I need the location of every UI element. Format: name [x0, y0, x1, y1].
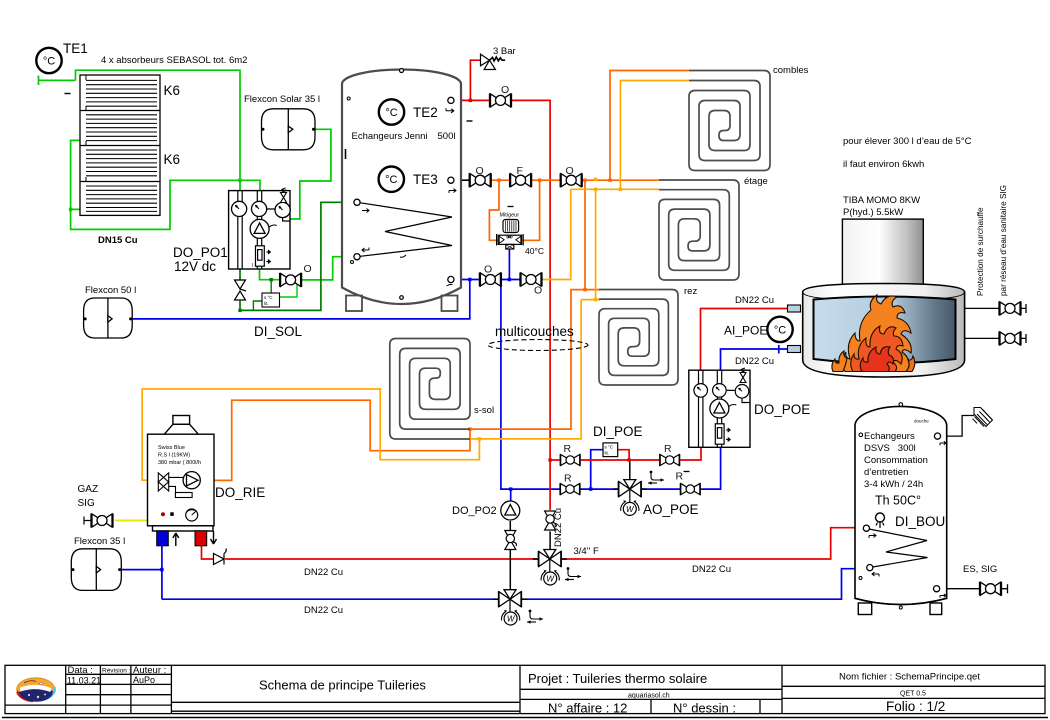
svg-text:380 mbar ( 800l/h: 380 mbar ( 800l/h [158, 460, 201, 466]
safety valve 3 Bar [481, 54, 506, 69]
svg-text:Flexcon Solar 35 l: Flexcon Solar 35 l [244, 94, 320, 105]
floor loop rez [599, 290, 678, 386]
boiler pump [183, 472, 200, 489]
svg-text:Protection de surchauffe: Protection de surchauffe [976, 207, 985, 296]
stove ports left [788, 305, 801, 312]
svg-text:500l: 500l [438, 131, 456, 142]
svg-text:pour élever 300 l d’eau de 5°C: pour élever 300 l d’eau de 5°C [843, 136, 972, 147]
wire valve O to tank coil port 2 [302, 257, 354, 280]
svg-text:Flexcon 50 l: Flexcon 50 l [85, 285, 136, 296]
ball valve under DO_PO2 [505, 531, 517, 550]
controller box solar [262, 293, 280, 307]
DI_BOU ports [863, 525, 869, 531]
svg-text:DN22 Cu: DN22 Cu [692, 564, 731, 575]
valve O top red [490, 93, 512, 107]
wire AO_POE top link [629, 460, 631, 479]
wire heating row dark orange [491, 179, 659, 181]
svg-text:TE3: TE3 [413, 172, 438, 187]
wire tank hot out to valve O red [454, 99, 491, 101]
wire solar collector left return run [71, 140, 260, 229]
svg-text:multicouches: multicouches [495, 324, 574, 339]
svg-text:DN22 Cu: DN22 Cu [304, 567, 343, 578]
check valve on red line [214, 549, 227, 565]
wire blue row through R valve to AO_POE [580, 447, 721, 489]
svg-text:O: O [484, 264, 492, 276]
svg-text:DI_SOL: DI_SOL [254, 324, 303, 339]
gauge 2 [252, 201, 267, 216]
wire between bottom valves O [501, 279, 522, 281]
gas boiler DO_RIE [148, 416, 215, 532]
wire gas supply yellow [115, 520, 148, 522]
svg-text:AuPo: AuPo [133, 675, 155, 685]
svg-text:O: O [501, 84, 509, 96]
wire DI_SOL blue main [132, 280, 470, 319]
sensor TE2 [379, 99, 404, 124]
svg-text:s-sol: s-sol [474, 405, 494, 416]
svg-text:DO_PO1: DO_PO1 [173, 245, 228, 260]
motor W bottom [501, 610, 519, 625]
svg-text:DI_POE: DI_POE [593, 424, 643, 439]
svg-text:Folio : 1/2: Folio : 1/2 [886, 699, 945, 714]
svg-text:rez: rez [684, 286, 697, 297]
wire red row DI_POE/AO_POE [550, 447, 701, 460]
floor loop s-sol [390, 339, 470, 440]
svg-text:Consommation: Consommation [864, 455, 928, 466]
wire DO_PO2 pump stub [510, 489, 512, 500]
sensor TE1 [36, 48, 61, 73]
valve ES SIG [980, 582, 1002, 596]
svg-text:DN22 Cu: DN22 Cu [735, 295, 774, 306]
mitigeur thermostatic mixing valve [508, 206, 514, 208]
svg-text:11.03.21: 11.03.21 [67, 675, 101, 685]
svg-text:Echangeurs Jenni: Echangeurs Jenni [352, 131, 428, 142]
svg-text:TE1: TE1 [63, 41, 88, 56]
wire red main to DI_BOU [560, 528, 863, 559]
sensor AI_POE [767, 317, 792, 342]
wire mitigeur hot inlet [489, 180, 539, 240]
wire stove AI_POE return blue [721, 345, 788, 370]
svg-text:12V dc: 12V dc [174, 259, 216, 274]
svg-text:aquariasol.ch: aquariasol.ch [628, 693, 670, 700]
heat exchanger coil in tank [357, 202, 452, 256]
valve row O F O [469, 173, 491, 187]
svg-text:O: O [566, 165, 574, 177]
svg-text:DN22 Cu: DN22 Cu [735, 356, 774, 367]
gauge 3 [275, 202, 290, 217]
thermometer icon [876, 513, 885, 522]
svg-text:N° dessin :: N° dessin : [673, 701, 736, 716]
wire combles return riser light orange [620, 81, 689, 190]
wire solar flow top run collector to DO_PO1 [76, 70, 241, 190]
wire boiler return riser blue [501, 280, 560, 490]
svg-text:douche: douche [914, 419, 929, 424]
svg-text:3-4 kWh / 24h: 3-4 kWh / 24h [864, 479, 923, 490]
dashed ellipse multicouches [488, 340, 588, 351]
svg-text:DI_BOU: DI_BOU [895, 514, 945, 529]
gauge 1 [232, 201, 247, 216]
svg-text:DO_RIE: DO_RIE [215, 485, 265, 500]
svg-text:l: l [252, 263, 253, 269]
svg-text:DSVS 300l: DSVS 300l [864, 443, 916, 454]
boiler detail marks [175, 493, 192, 498]
gas valve [91, 514, 113, 528]
wire boiler flow light orange riser [541, 189, 571, 279]
svg-text:Nom fichier : SchemaPrincipe.q: Nom fichier : SchemaPrincipe.qet [839, 672, 980, 683]
svg-text:TIBA MOMO 8KW: TIBA MOMO 8KW [843, 195, 920, 206]
crow-foot AO_POE [648, 471, 664, 485]
svg-text:GAZ: GAZ [78, 484, 99, 495]
svg-text:Th 50C°: Th 50C° [875, 494, 921, 508]
pump station DO_PO1 [229, 191, 290, 269]
crow-foot bottom [527, 610, 543, 624]
ball valve on red riser [545, 511, 557, 530]
svg-text:il faut environ 6kwh: il faut environ 6kwh [843, 159, 924, 170]
svg-text:O: O [304, 263, 312, 275]
svg-text:par réseau d’eau sanitaire SIG: par réseau d’eau sanitaire SIG [999, 185, 1008, 296]
svg-text:40°C: 40°C [525, 246, 544, 256]
svg-text:R: R [564, 473, 572, 485]
wire combles supply riser [610, 71, 689, 181]
svg-text:ES, SIG: ES, SIG [963, 564, 997, 575]
valve R red left [560, 454, 580, 466]
svg-text:O: O [534, 285, 542, 297]
wire etage return row [571, 188, 659, 190]
svg-text:3 Bar: 3 Bar [493, 46, 516, 57]
floor loop etage [659, 180, 739, 280]
svg-text:F: F [517, 165, 523, 177]
svg-text:DN22 Cu: DN22 Cu [304, 605, 343, 616]
svg-text:Projet : Tuileries thermo sola: Projet : Tuileries thermo solaire [528, 671, 707, 686]
svg-text:R: R [676, 471, 684, 483]
solar collector panels K6 [80, 75, 160, 215]
3-way valve bottom [493, 590, 527, 613]
wire DI_POE sensor link red [617, 450, 629, 460]
svg-text:d’entretien: d’entretien [864, 467, 908, 478]
svg-text:TE2: TE2 [413, 105, 438, 120]
svg-text:SIG: SIG [78, 498, 95, 509]
svg-text:Schema de principe Tuileries: Schema de principe Tuileries [259, 678, 426, 693]
boiler tank DI_BOU [855, 406, 947, 604]
wire DI_BOU drain to ES SIG valve [940, 584, 1008, 593]
stove chimney [842, 219, 923, 287]
svg-text:N° affaire : 12: N° affaire : 12 [548, 701, 627, 716]
boiler flow/return stubs [157, 531, 169, 546]
svg-text:s °C: s °C [264, 295, 273, 300]
wire expansion vessel Flexcon Solar connection [290, 129, 331, 219]
port arrows ticks [346, 108, 473, 286]
pump DO_POE [710, 399, 729, 418]
svg-text:P(hyd.) 5.5kW: P(hyd.) 5.5kW [843, 207, 903, 218]
storage tank Echangeurs Jenni 500l [342, 70, 461, 305]
pump DO_PO2 [501, 501, 520, 520]
surcharge valves right [999, 301, 1021, 315]
wire red riser valve O to 3/4F valve [510, 100, 550, 510]
svg-text:O: O [476, 165, 484, 177]
svg-text:Révision :: Révision : [102, 668, 131, 675]
stove window glass [814, 297, 956, 364]
wire DO_PO1 check valve line to tank coil port 1 (dark green) [240, 202, 354, 310]
valve R blue left [560, 483, 580, 495]
DI_BOU coil [866, 529, 927, 568]
valve R red right [660, 454, 680, 466]
crow-foot near 3/4F [565, 567, 581, 581]
wire s-sol return to boiler light orange [142, 300, 581, 481]
stove flames [832, 295, 915, 372]
3-way valve AO_POE [613, 480, 647, 503]
wire controller top link [270, 280, 272, 293]
svg-text:étage: étage [744, 176, 768, 187]
logo [17, 678, 55, 702]
flow meter [256, 246, 271, 266]
wire solar TE1 sensor stub (bright green) [39, 76, 76, 86]
motor W AO_POE [621, 500, 639, 515]
svg-text:4 x absorbeurs SEBASOL tot. 6m: 4 x absorbeurs SEBASOL tot. 6m2 [101, 55, 247, 66]
wire boiler flow red left [202, 546, 538, 559]
svg-text:AI_POE: AI_POE [724, 324, 767, 338]
junction dots [69, 179, 242, 211]
svg-text:R: R [564, 443, 572, 455]
3-way valve 3/4 F [533, 550, 567, 573]
svg-text:Swiss Blue: Swiss Blue [158, 445, 185, 451]
svg-text:Mitigeur: Mitigeur [500, 213, 520, 219]
wire controller to valve (green) [279, 281, 297, 297]
svg-text:QET 0.5: QET 0.5 [900, 691, 926, 698]
svg-text:AO_POE: AO_POE [643, 502, 699, 517]
wire stove AI_POE flow red [701, 309, 788, 371]
floor loop combles [689, 71, 770, 171]
tank ports [448, 97, 454, 103]
wire DI_POE sensor link blue [591, 450, 604, 489]
svg-text:DO_PO2: DO_PO2 [452, 505, 497, 517]
boiler gas valves [158, 473, 183, 494]
motor W 3/4F [541, 570, 559, 585]
wire tank TE3 port to valve [454, 179, 470, 181]
wire 3 Bar safety branch [470, 60, 480, 100]
svg-text:lit.: lit. [605, 451, 610, 456]
svg-text:s °C: s °C [605, 445, 614, 450]
check valve below DO_PO1 [235, 280, 247, 300]
wire controller left link [253, 301, 262, 310]
wire Flexcon 35 connection [121, 546, 162, 599]
safety relief on DO_PO1 [281, 188, 287, 203]
stove body [803, 284, 965, 378]
wire rez / s-sol supply dark orange [205, 180, 599, 480]
svg-text:lit.: lit. [264, 301, 269, 306]
svg-text:K6: K6 [164, 83, 181, 98]
wire tank bottom port to valve O [454, 279, 480, 281]
svg-text:Flexcon 35 l: Flexcon 35 l [74, 536, 125, 547]
svg-text:3/4'' F: 3/4'' F [574, 546, 599, 557]
shower head icon [973, 408, 993, 427]
wire DO_PO1 outlet to valve O [260, 269, 280, 280]
svg-text:Echangeurs: Echangeurs [864, 431, 915, 442]
wire rez return [581, 189, 600, 299]
svg-text:combles: combles [773, 65, 809, 76]
flow meter DO_POE [715, 424, 730, 444]
svg-text:K6: K6 [164, 152, 181, 167]
wire DO_PO2 down chain [509, 521, 511, 590]
svg-text:R.S l (19KW): R.S l (19KW) [158, 453, 190, 459]
valve R- blue right [680, 483, 700, 495]
wire stove to surcharge valves [951, 304, 1026, 343]
wire 3/4F black link [549, 531, 551, 549]
pump DO_PO1 [250, 219, 269, 238]
svg-text:DN22 Cu: DN22 Cu [553, 508, 564, 547]
sensor TE3 [379, 167, 404, 192]
svg-text:R: R [664, 443, 672, 455]
tick minus near TE1 [65, 93, 71, 95]
svg-text:DO_POE: DO_POE [754, 402, 810, 417]
wire DI_BOU to shower [942, 416, 974, 437]
wire mitigeur cold outlet down [508, 248, 510, 280]
valves O at tank bottom row [479, 273, 501, 287]
wire bottom blue return main [162, 569, 863, 600]
tank feet [342, 288, 461, 312]
valve O near DO_PO1 [280, 273, 302, 287]
svg-text:DN15 Cu: DN15 Cu [98, 235, 138, 246]
